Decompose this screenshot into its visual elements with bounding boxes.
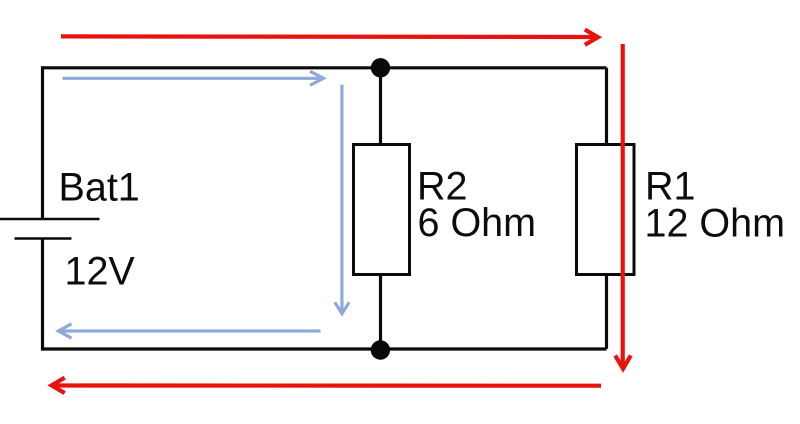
- red current arrow right (pointing down): [615, 44, 631, 369]
- wire R2 branch upper (top node down to resistor R2): [379, 68, 382, 146]
- wire right upper (top corner down to resistor R1): [605, 68, 608, 146]
- svg-text:Bat1: Bat1: [59, 166, 140, 210]
- wire top (left corner to right corner): [43, 66, 607, 69]
- blue current arrow bottom (pointing left): [59, 324, 321, 338]
- resistor R2 body: [354, 145, 410, 275]
- blue current arrow top (pointing right): [63, 71, 324, 85]
- node top junction dot: [371, 58, 390, 77]
- resistor R1 body: [577, 145, 635, 275]
- blue current arrow middle (pointing down through R2 branch): [335, 85, 349, 314]
- battery Bat1 short plate (negative terminal): [15, 237, 72, 240]
- red current arrow bottom (pointing left): [52, 378, 602, 393]
- svg-text:6 Ohm: 6 Ohm: [418, 201, 537, 245]
- wire bottom (left corner to right corner): [43, 347, 607, 350]
- svg-text:12V: 12V: [65, 249, 136, 293]
- wire left (top corner down to battery top plate): [41, 66, 44, 219]
- wire R2 branch lower (resistor R2 bottom down to bottom node): [379, 273, 382, 349]
- battery Bat1 long plate (positive terminal): [0, 218, 100, 221]
- wire left lower (battery bottom plate down to bottom wire): [41, 239, 44, 351]
- svg-text:12 Ohm: 12 Ohm: [645, 202, 786, 246]
- red current arrow top (pointing right): [61, 30, 598, 45]
- node bottom junction dot: [371, 340, 390, 359]
- wire right lower (resistor R1 bottom down to bottom wire): [605, 273, 608, 349]
